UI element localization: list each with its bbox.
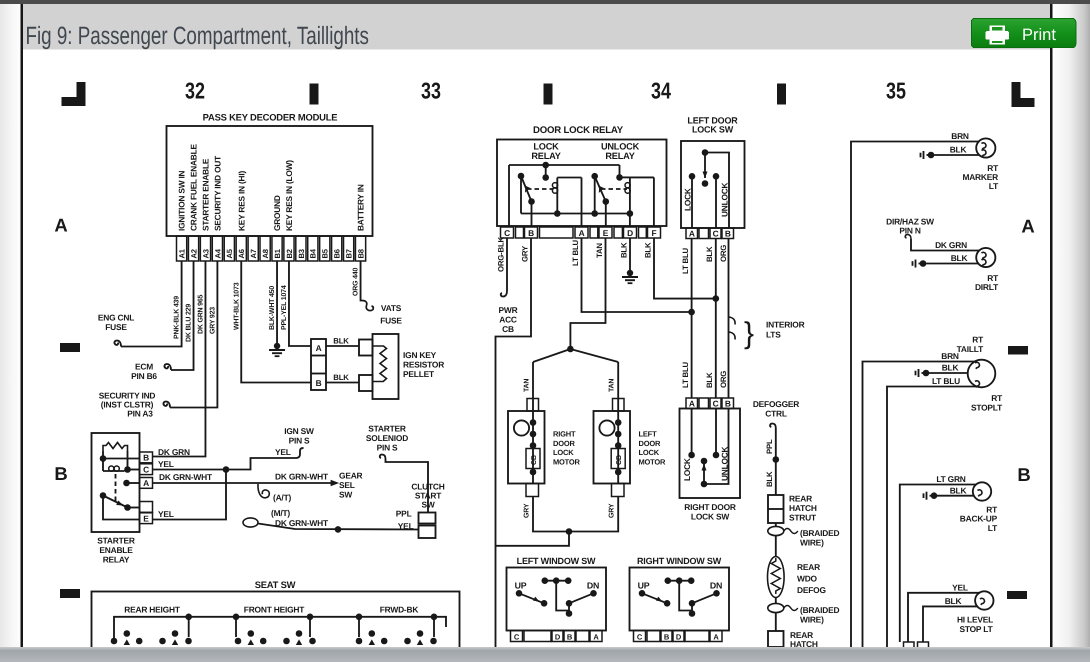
wire BLK-WHT 450: module B1 to ground	[269, 261, 277, 344]
ground tap G6 and wire BLK to back-up lamp	[924, 485, 975, 499]
svg-text:BLK: BLK	[644, 242, 653, 258]
svg-text:A: A	[579, 228, 585, 238]
svg-text:GRY: GRY	[521, 245, 530, 262]
ground tap G4 and wire BLK to dir lamp	[913, 253, 980, 268]
frame tick: top between 32/33	[310, 84, 319, 105]
svg-text:33: 33	[421, 78, 441, 104]
svg-text:B: B	[316, 378, 322, 388]
relay K2 top rail	[509, 162, 623, 227]
svg-text:D: D	[676, 632, 682, 641]
wire BRN: to RT TAILLT	[863, 351, 976, 647]
svg-text:YEL: YEL	[275, 447, 291, 457]
wire GRY: relay B down to window switch area	[496, 238, 532, 647]
svg-text:B: B	[567, 632, 573, 641]
frame tick: right middle	[1008, 346, 1028, 355]
wire PPL-YEL 1074: module B2 to resistor pellet A	[281, 261, 311, 346]
svg-text:RELAY: RELAY	[605, 151, 634, 161]
svg-text:B5: B5	[321, 248, 330, 258]
frame tick: top between 33/34	[544, 84, 553, 105]
svg-text:UNLOCK: UNLOCK	[720, 183, 730, 217]
relay K2 lock contact	[518, 173, 535, 227]
frame tick: left middle	[60, 343, 80, 352]
svg-text:BLK: BLK	[950, 145, 967, 155]
ground G2 below relay D	[622, 270, 638, 283]
wire DK GRN: dir/haz switch to RT DIRLT	[905, 235, 979, 251]
label STARTER ENABLE RELAY	[97, 536, 135, 565]
relay K1 pins B C A E	[140, 452, 153, 524]
switch S6: CLUTCH START SW connectors	[396, 509, 436, 539]
wire LT BLU: relay A to door lock switch column	[571, 238, 692, 312]
wire LT GRN: to RT BACK-UP LT	[900, 474, 977, 642]
wire BLK: relay F to door switch BLK line	[644, 238, 720, 302]
svg-text:C: C	[713, 229, 719, 239]
wire DK BLU 229: module A2 to ECM pin B6	[164, 261, 193, 370]
svg-text:BATTERY IN: BATTERY IN	[356, 184, 366, 231]
svg-text:BLK: BLK	[945, 596, 962, 606]
svg-text:IGNITION SW IN: IGNITION SW IN	[177, 170, 187, 231]
braided wire splice 2	[768, 598, 840, 625]
svg-text:LOCK: LOCK	[683, 188, 693, 211]
svg-text:B6: B6	[333, 249, 342, 258]
wire DK GRN 965: module A3 to starter enable relay pin B	[153, 261, 206, 457]
svg-text:B: B	[725, 399, 731, 409]
wire ORG-BLK: relay C to PWR ACC CB	[497, 236, 508, 296]
svg-text:B2: B2	[285, 249, 294, 258]
svg-text:PWR: PWR	[499, 305, 518, 315]
label DEFOGGER CTRL	[753, 399, 799, 419]
svg-text:STARTER: STARTER	[97, 536, 135, 546]
svg-text:REAR: REAR	[789, 494, 812, 504]
switch S4: LEFT WINDOW SW	[507, 556, 607, 642]
svg-text:CB: CB	[531, 455, 538, 465]
svg-text:}: }	[744, 317, 754, 350]
wire PNK-BLK 439: module A1 to ENG CNL FUSE	[114, 261, 181, 347]
browser top dark strip	[0, 0, 1090, 4]
label INTERIOR LTS	[766, 320, 805, 340]
svg-text:A5: A5	[225, 248, 234, 258]
svg-text:LT GRN: LT GRN	[936, 474, 965, 484]
svg-text:CRANK FUEL ENABLE: CRANK FUEL ENABLE	[189, 144, 199, 231]
svg-text:FUSE: FUSE	[380, 316, 402, 326]
right page border line	[1050, 4, 1052, 647]
svg-text:STARTER ENABLE: STARTER ENABLE	[200, 158, 210, 231]
bottom scrollbar strip	[0, 647, 1090, 662]
resistor R1: IGN KEY RESISTOR PELLET	[373, 334, 399, 399]
motor M1: RIGHT DOOR LOCK MOTOR	[508, 379, 581, 518]
switch S2 internals	[683, 149, 730, 228]
svg-text:LOCK: LOCK	[533, 142, 559, 152]
svg-text:PIN S: PIN S	[377, 443, 398, 453]
svg-text:ORG-BLK: ORG-BLK	[497, 236, 506, 272]
svg-text:LT BLU: LT BLU	[681, 361, 690, 388]
svg-text:A1: A1	[178, 248, 187, 258]
frame mark: top-right corner	[1012, 82, 1035, 107]
svg-text:A7: A7	[249, 249, 258, 258]
svg-text:UP: UP	[515, 581, 527, 591]
svg-text:TAN: TAN	[595, 243, 604, 258]
svg-text:ENABLE: ENABLE	[99, 545, 133, 555]
svg-text:YEL: YEL	[158, 509, 174, 519]
svg-text:WIRE): WIRE)	[800, 615, 824, 625]
relay K2 unlock coil	[601, 177, 654, 227]
relay K2 pins C B A E D F	[501, 227, 661, 238]
svg-text:(A/T): (A/T)	[273, 493, 291, 503]
svg-text:STOPLT: STOPLT	[971, 403, 1003, 413]
svg-text:GRY: GRY	[524, 503, 531, 518]
frame tick: left bottom	[60, 589, 80, 598]
module U1: PASS KEY DECODER MODULE box	[167, 112, 373, 237]
svg-text:STOP LT: STOP LT	[959, 624, 993, 634]
wire BLK: to HI LEVEL STOP LT	[923, 596, 978, 642]
left gutter gradient strip	[0, 4, 20, 647]
ground tap G5 and wire BLK to taillamp	[916, 363, 969, 378]
label RT BACK-UP LT	[960, 505, 998, 534]
wire YEL: relay E to junction	[153, 466, 230, 519]
svg-text:RESISTOR: RESISTOR	[403, 360, 444, 370]
svg-text:KEY RES IN (LOW): KEY RES IN (LOW)	[284, 160, 294, 231]
svg-text:WDO: WDO	[797, 574, 818, 584]
svg-text:PNK-BLK 439: PNK-BLK 439	[174, 296, 181, 339]
svg-text:B: B	[143, 453, 149, 463]
svg-text:RT: RT	[972, 335, 984, 345]
wire LT BLU: to RT STOPLT	[887, 376, 978, 647]
svg-text:LOCK: LOCK	[639, 448, 660, 457]
svg-text:C: C	[514, 632, 520, 641]
svg-text:DK GRN 965: DK GRN 965	[197, 294, 204, 334]
svg-text:DK GRN-WHT: DK GRN-WHT	[275, 472, 329, 482]
svg-text:B8: B8	[356, 249, 365, 258]
ground G1 below module B1	[269, 343, 285, 356]
svg-text:STRUT: STRUT	[789, 513, 817, 523]
label IGN SW PIN S	[284, 426, 314, 446]
svg-text:PPL-YEL 1074: PPL-YEL 1074	[281, 285, 288, 330]
svg-text:FUSE: FUSE	[105, 322, 127, 332]
svg-text:PASS KEY DECODER MODULE: PASS KEY DECODER MODULE	[203, 112, 338, 123]
svg-text:A: A	[713, 632, 719, 641]
switch S2: LEFT DOOR LOCK SW box	[681, 116, 745, 229]
svg-text:B: B	[725, 229, 731, 239]
label RT DIRLT	[975, 273, 999, 292]
svg-text:A2: A2	[189, 249, 198, 258]
svg-text:SEL: SEL	[339, 480, 355, 490]
svg-text:LT: LT	[988, 523, 998, 533]
wire LT BLU: left door sw A to right door sw A	[681, 239, 695, 399]
svg-text:DK GRN: DK GRN	[158, 447, 190, 457]
svg-text:ORG 440: ORG 440	[353, 268, 360, 296]
label ENG CNL FUSE	[98, 313, 134, 333]
module U1 pins A1-A8,B1-B8	[177, 236, 366, 261]
svg-text:FRWD-BK: FRWD-BK	[380, 605, 419, 615]
svg-text:SEAT SW: SEAT SW	[255, 579, 296, 590]
svg-text:B: B	[528, 228, 534, 238]
svg-text:REAR: REAR	[797, 562, 820, 572]
svg-text:E: E	[143, 513, 149, 523]
wire TAN: relay E to motor splay	[533, 238, 618, 399]
relay K2 bottom rail	[521, 210, 633, 227]
label RT MARKER LT	[962, 163, 999, 191]
label DK GRN at relay pin B	[158, 447, 190, 457]
breaker CB1: PWR ACC CB label	[499, 305, 518, 334]
module U1 pin function labels	[177, 144, 366, 231]
svg-text:LT BLU: LT BLU	[681, 247, 690, 274]
svg-text:B7: B7	[345, 249, 354, 258]
wire GRY 923: module A4 to SECURITY IND	[163, 261, 217, 408]
svg-text:DOOR LOCK RELAY: DOOR LOCK RELAY	[533, 125, 624, 136]
svg-text:BLK: BLK	[942, 363, 959, 373]
strut: REAR HATCH STRUT	[768, 494, 817, 524]
wire BLK: pellet A to socket	[326, 337, 359, 347]
wire WHT-BLK 1073: module A6 to resistor pellet B	[233, 261, 311, 383]
svg-text:34: 34	[651, 78, 671, 104]
svg-text:A: A	[143, 478, 149, 488]
svg-text:LOCK: LOCK	[553, 448, 574, 457]
svg-text:C: C	[713, 399, 719, 409]
svg-text:UNLOCK: UNLOCK	[720, 447, 730, 481]
svg-text:D: D	[555, 632, 561, 641]
wire ORG: left door sw B to right door sw B	[719, 239, 729, 399]
svg-text:A: A	[54, 215, 67, 236]
label UNLOCK RELAY	[601, 142, 640, 162]
lamp RT TAILLT / RT STOPLT	[968, 360, 996, 388]
svg-text:32: 32	[185, 78, 205, 104]
lamp HI LEVEL STOP LT	[975, 591, 993, 609]
svg-text:KEY RES IN (HI): KEY RES IN (HI)	[236, 171, 246, 231]
svg-text:DN: DN	[710, 581, 722, 591]
svg-text:LOCK: LOCK	[682, 458, 692, 481]
label GEAR SEL SW	[339, 471, 363, 500]
label ECM PIN B6	[131, 362, 157, 382]
svg-text:UP: UP	[638, 581, 650, 591]
label VATS FUSE	[380, 303, 402, 326]
svg-text:ORG: ORG	[719, 371, 728, 388]
label CLUTCH START SW	[411, 482, 444, 510]
svg-text:(BRAIDED: (BRAIDED	[800, 528, 839, 538]
label RT TAILLT	[957, 335, 984, 355]
svg-text:MOTOR: MOTOR	[553, 457, 581, 466]
svg-text:GROUND: GROUND	[272, 195, 282, 231]
svg-text:35: 35	[886, 78, 906, 104]
svg-text:A6: A6	[237, 249, 246, 258]
svg-text:PPL: PPL	[396, 509, 412, 519]
connector (M/T) and wire DK GRN-WHT to clutch start switch	[243, 508, 419, 533]
svg-text:MOTOR: MOTOR	[639, 457, 667, 466]
svg-text:DK BLU 229: DK BLU 229	[186, 304, 193, 342]
label HI LEVEL STOP LT	[957, 615, 994, 635]
svg-text:Fig 9: Passenger Compartment,: Fig 9: Passenger Compartment, Taillights	[26, 22, 369, 50]
svg-text:RIGHT WINDOW SW: RIGHT WINDOW SW	[637, 556, 722, 566]
svg-text:DK GRN: DK GRN	[935, 240, 967, 250]
svg-text:PIN B6: PIN B6	[131, 371, 157, 381]
svg-text:SECURITY IND OUT: SECURITY IND OUT	[212, 156, 222, 231]
wire PPL: clutch start switch to STARTER SOLENIOD PIN S	[380, 455, 428, 513]
svg-text:YEL: YEL	[952, 582, 968, 592]
svg-text:LTS: LTS	[766, 330, 781, 340]
svg-text:ACC: ACC	[499, 315, 517, 325]
grid column label 35	[886, 78, 906, 104]
relay K1: STARTER ENABLE RELAY box	[92, 433, 140, 532]
label STARTER SOLENIOD PIN S	[366, 424, 408, 453]
label DIR/HAZ SW PIN N	[886, 217, 934, 236]
svg-text:LEFT: LEFT	[639, 430, 658, 439]
switch S2 pins A C B	[686, 228, 734, 239]
svg-text:B: B	[664, 632, 670, 641]
svg-text:DEFOG: DEFOG	[797, 585, 826, 595]
svg-text:B3: B3	[297, 249, 306, 258]
label IGN KEY RESISTOR PELLET	[403, 350, 444, 379]
svg-text:RIGHT: RIGHT	[553, 430, 576, 439]
motor M2: LEFT DOOR LOCK MOTOR	[594, 379, 667, 518]
wire BLK: pellet B to socket	[326, 373, 359, 383]
svg-text:DK GRN-WHT: DK GRN-WHT	[275, 518, 329, 528]
svg-text:A3: A3	[201, 249, 210, 258]
svg-text:IGN KEY: IGN KEY	[403, 350, 437, 360]
svg-text:BLK: BLK	[765, 471, 774, 487]
connector: pellet terminals A/B	[311, 339, 326, 390]
svg-text:SW: SW	[339, 490, 352, 500]
svg-text:B: B	[1017, 464, 1030, 485]
ground tap G3 and wire BLK to marker lamp	[921, 145, 980, 160]
svg-text:BRN: BRN	[951, 131, 969, 141]
svg-text:LOCK SW: LOCK SW	[691, 512, 729, 522]
svg-text:LT: LT	[989, 181, 999, 191]
svg-text:A8: A8	[261, 249, 270, 258]
grid row label B left	[54, 463, 67, 484]
svg-text:PIN A3: PIN A3	[127, 409, 153, 419]
svg-text:CB: CB	[616, 455, 623, 465]
lamp RT BACK-UP LT	[973, 482, 991, 500]
svg-text:YEL: YEL	[398, 521, 414, 531]
svg-text:(BRAIDED: (BRAIDED	[800, 605, 839, 615]
svg-text:B1: B1	[273, 248, 282, 258]
frame tick: right bottom	[1007, 591, 1027, 599]
svg-text:LT BLU: LT BLU	[932, 376, 960, 386]
svg-text:C: C	[143, 464, 149, 474]
svg-text:BLK-WHT 450: BLK-WHT 450	[269, 286, 276, 330]
wire DK GRN-WHT: relay A to GEAR SEL SW	[153, 472, 340, 487]
frame mark: top-left corner	[62, 82, 86, 106]
relay K2: DOOR LOCK RELAY box	[497, 125, 667, 226]
right gutter gradient strip	[1052, 4, 1090, 647]
svg-text:REAR HEIGHT: REAR HEIGHT	[124, 605, 181, 615]
svg-text:BLK: BLK	[951, 253, 968, 263]
svg-text:PELLET: PELLET	[403, 369, 435, 379]
frame tick: top between 34/35	[777, 84, 786, 105]
svg-text:B: B	[54, 463, 67, 484]
svg-text:LOCK SW: LOCK SW	[692, 125, 734, 135]
connector: REAR HATCH	[768, 613, 818, 650]
title text	[26, 22, 369, 50]
svg-text:BLK: BLK	[705, 372, 714, 388]
svg-text:CTRL: CTRL	[765, 409, 787, 419]
svg-text:BACK-UP: BACK-UP	[960, 514, 998, 524]
svg-text:PPL: PPL	[765, 439, 774, 454]
label LOCK RELAY	[531, 142, 560, 162]
svg-text:B4: B4	[309, 248, 318, 258]
relay K1 internals	[100, 451, 140, 520]
svg-text:RIGHT DOOR: RIGHT DOOR	[684, 502, 736, 512]
relay K2 unlock contact	[591, 173, 609, 227]
svg-text:SW: SW	[421, 500, 434, 510]
svg-text:PIN S: PIN S	[289, 436, 310, 446]
svg-text:TAN: TAN	[609, 379, 616, 392]
left page border line	[20, 4, 23, 647]
svg-text:(M/T): (M/T)	[271, 508, 290, 518]
heater element: REAR WDO DEFOG	[768, 536, 826, 598]
svg-text:GRY: GRY	[609, 503, 616, 518]
svg-text:INTERIOR: INTERIOR	[766, 320, 805, 330]
seat sw section labels	[124, 605, 418, 615]
switch S3 pins A C B	[686, 398, 734, 409]
wire BLK: relay D to ground	[620, 238, 631, 271]
svg-text:STARTER: STARTER	[368, 424, 406, 434]
svg-text:DOOR: DOOR	[553, 439, 575, 448]
svg-text:A: A	[316, 343, 322, 353]
label RIGHT DOOR LOCK SW	[684, 502, 736, 522]
svg-text:BLK: BLK	[620, 242, 629, 258]
lamp RT MARKER LT	[976, 138, 995, 157]
connector sockets at resistor pellet	[359, 340, 373, 392]
svg-text:DEFOGGER: DEFOGGER	[753, 399, 799, 409]
svg-text:DOOR: DOOR	[639, 439, 661, 448]
svg-text:HI LEVEL: HI LEVEL	[957, 615, 993, 625]
braided wire splice 1	[768, 523, 840, 548]
svg-text:BLK: BLK	[950, 485, 967, 495]
wire BRN: feed to RT MARKER LT	[851, 131, 980, 647]
grid column label 34	[651, 78, 671, 104]
svg-text:D: D	[627, 228, 633, 238]
svg-text:FRONT HEIGHT: FRONT HEIGHT	[244, 605, 305, 615]
svg-text:WIRE): WIRE)	[800, 538, 824, 548]
svg-text:Print: Print	[1022, 26, 1056, 44]
seat sw contacts	[111, 630, 437, 645]
switch S3 internals	[682, 409, 730, 488]
wire YEL: to HI LEVEL STOP LT	[908, 582, 980, 642]
wire YEL: relay C to IGN SW PIN S	[153, 447, 304, 470]
lamp RT DIRLT	[976, 248, 995, 267]
svg-text:ECM: ECM	[135, 362, 153, 372]
grid column label 32	[185, 78, 205, 104]
svg-text:F: F	[652, 228, 657, 238]
wire PPL/BLK: defogger control to rear hatch strut	[765, 424, 779, 496]
svg-text:LEFT WINDOW SW: LEFT WINDOW SW	[517, 556, 596, 566]
relay K1 coil resistor	[103, 443, 128, 452]
svg-text:GEAR: GEAR	[339, 471, 363, 481]
svg-text:TAILLT: TAILLT	[957, 344, 984, 354]
svg-text:A: A	[689, 399, 695, 409]
svg-text:ENG CNL: ENG CNL	[98, 313, 134, 323]
svg-text:YEL: YEL	[158, 459, 174, 469]
relay K2 lock coil	[527, 178, 582, 228]
svg-text:E: E	[603, 228, 609, 238]
svg-text:CB: CB	[502, 324, 514, 334]
svg-text:ORG: ORG	[719, 245, 728, 262]
svg-text:RT: RT	[991, 393, 1003, 403]
svg-text:DIRLT: DIRLT	[975, 282, 999, 292]
label RT STOPLT	[971, 393, 1003, 413]
svg-text:BLK: BLK	[333, 373, 349, 382]
print button	[971, 18, 1076, 47]
switch S7: SEAT SW box	[92, 579, 460, 650]
svg-text:DN: DN	[587, 581, 599, 591]
svg-text:A: A	[593, 632, 599, 641]
svg-text:A: A	[689, 229, 695, 239]
svg-text:LT BLU: LT BLU	[571, 239, 580, 266]
svg-text:TAN: TAN	[524, 379, 531, 392]
wire BLK: left door sw C to right door sw C	[705, 239, 716, 399]
svg-text:BRN: BRN	[941, 351, 959, 361]
title bar	[23, 4, 1050, 50]
svg-text:A: A	[1021, 216, 1034, 237]
